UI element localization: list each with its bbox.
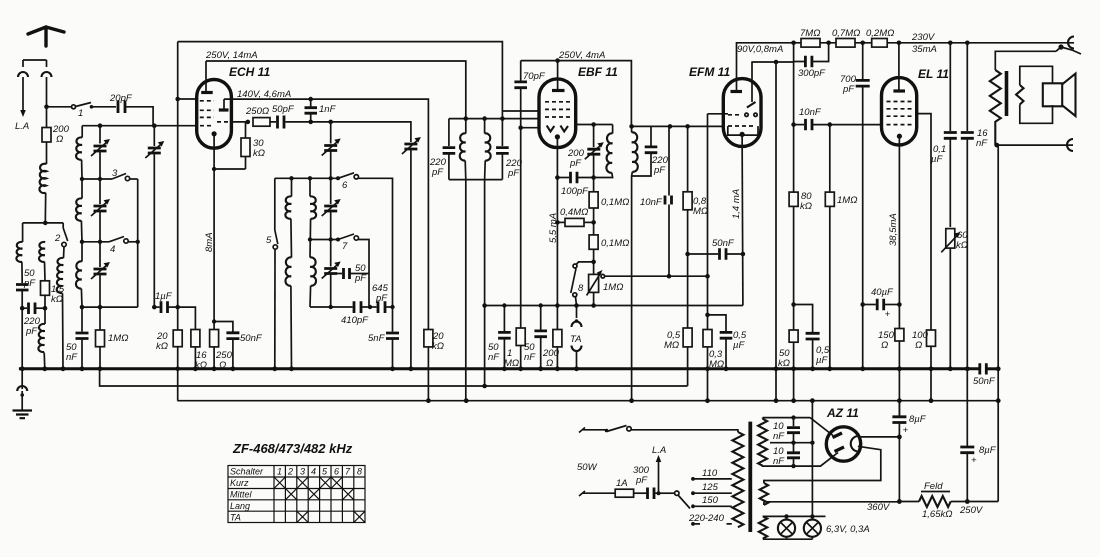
capacitor 50pF osc <box>278 116 285 129</box>
capacitor 50nF cathode <box>214 322 233 332</box>
wire field to 250V node <box>951 501 999 503</box>
core output transformer <box>1005 71 1009 116</box>
resistor 20kohm osc <box>424 330 433 347</box>
wire tap to S7 <box>310 239 338 241</box>
svg-text:50nF: 50nF <box>712 238 735 249</box>
svg-text:4: 4 <box>311 467 316 477</box>
resistor 1Mohm out <box>829 125 831 193</box>
bus nodes mid <box>272 366 277 371</box>
capacitor 50nF <box>503 306 505 332</box>
wire EFM right drop <box>775 62 777 401</box>
resistor 7Mohm <box>801 39 820 48</box>
resistor 0.7Mohm <box>836 39 855 48</box>
svg-text:TA: TA <box>570 334 581 345</box>
svg-text:250Ω: 250Ω <box>245 106 269 117</box>
wire mains stub top <box>579 428 607 433</box>
coil IF2 primary <box>612 125 614 134</box>
svg-text:kΩ: kΩ <box>156 341 168 352</box>
svg-text:ZF-468/473/482 kHz: ZF-468/473/482 kHz <box>232 441 353 456</box>
switch S3 <box>82 178 112 180</box>
svg-text:125: 125 <box>702 482 719 493</box>
wire RF coil column top <box>81 126 83 138</box>
svg-text:+: + <box>885 309 891 320</box>
node osc top <box>329 176 333 180</box>
node HV centre tap <box>791 441 795 445</box>
node coil bottom <box>80 305 85 310</box>
svg-text:nF: nF <box>488 352 500 363</box>
coil RF C <box>81 242 83 262</box>
resistor 16kohm <box>191 330 200 347</box>
selector contact <box>675 491 679 495</box>
svg-text:0,1MΩ: 0,1MΩ <box>601 197 629 208</box>
svg-text:pF: pF <box>507 168 520 179</box>
wire EFM grid line <box>708 114 724 315</box>
node 1M top <box>98 305 103 310</box>
svg-text:1A: 1A <box>616 478 628 489</box>
wire 16k column <box>178 307 196 329</box>
svg-text:1: 1 <box>277 467 282 477</box>
speaker cone <box>1062 74 1075 116</box>
capacitor 10nF a <box>793 418 795 427</box>
svg-text:5,5 mA: 5,5 mA <box>548 213 559 243</box>
svg-text:pF: pF <box>375 293 388 304</box>
wire long line 305 <box>485 305 743 307</box>
wire 20pF to RF line corner <box>125 107 153 126</box>
node TA top <box>574 303 579 308</box>
jack speaker return <box>1067 139 1073 151</box>
EL11 cathode <box>897 134 902 139</box>
node screen stub <box>175 97 180 102</box>
coil osc left upper <box>291 178 293 196</box>
capacitor 220pF IF1-right <box>501 119 503 146</box>
svg-text:410pF: 410pF <box>341 315 369 326</box>
resistor 1Mohm <box>99 307 101 330</box>
node 1uF right <box>175 305 180 310</box>
ECH11 grid dashes <box>200 101 214 126</box>
svg-text:110: 110 <box>702 468 718 479</box>
wire 90V branch <box>751 61 793 63</box>
wire AZ11 output <box>861 436 900 438</box>
potentiometer 1Mohm <box>589 274 599 292</box>
bus nodes left <box>20 366 25 371</box>
op tube EBF11 U2 <box>539 79 576 148</box>
wire EBF11 anode stem <box>557 61 559 90</box>
node bracket junction <box>43 221 48 226</box>
capacitor 1nF <box>310 99 312 106</box>
capacitor 220pF IF2 <box>650 126 652 146</box>
svg-text:nF: nF <box>66 352 78 363</box>
rail 250V 4mA <box>521 61 632 127</box>
op tube ECH11 U1 <box>197 80 232 149</box>
node sw3 junction <box>98 177 102 181</box>
svg-text:Schalter: Schalter <box>230 467 264 477</box>
svg-text:50nF: 50nF <box>973 376 996 387</box>
svg-text:90V,0,8mA: 90V,0,8mA <box>737 44 783 55</box>
wire EL11 anode stem <box>898 43 900 90</box>
trimmer osc pad2 <box>329 237 333 241</box>
svg-text:Lang: Lang <box>230 501 250 511</box>
table switch matrix <box>228 466 365 523</box>
node 1nF top <box>308 97 313 102</box>
svg-text:38,5mA: 38,5mA <box>888 213 899 246</box>
svg-text:1MΩ: 1MΩ <box>108 333 128 344</box>
wire mains stub bottom <box>579 491 615 496</box>
X marks Mittel <box>285 489 296 500</box>
svg-text:150: 150 <box>702 495 719 506</box>
svg-text:pF: pF <box>23 278 36 289</box>
ECH11 triode plate <box>219 108 229 111</box>
wire RF grid line <box>82 125 197 127</box>
EFM11 screen box <box>728 126 758 135</box>
speaker secondary zigzag <box>1016 85 1023 105</box>
trimmer osc main <box>404 144 417 149</box>
EBF11 anode plate <box>552 89 565 92</box>
capacitor 300pF <box>794 43 804 62</box>
tap 150 <box>691 504 695 508</box>
svg-text:2: 2 <box>54 233 61 244</box>
rail 250V 14mA <box>206 61 466 119</box>
node osc tap <box>308 237 312 241</box>
svg-text:Ω: Ω <box>56 134 63 145</box>
svg-text:nF: nF <box>976 138 988 149</box>
wire band bracket <box>82 179 138 307</box>
coil RF A <box>76 137 82 159</box>
wire antenna stems to plugs <box>23 60 47 107</box>
trimmer 200pF <box>593 125 595 148</box>
svg-text:Ω: Ω <box>219 360 226 371</box>
switch S6 <box>336 176 340 180</box>
svg-text:Ω: Ω <box>881 340 888 351</box>
svg-text:2: 2 <box>287 467 293 477</box>
node cathode jog <box>212 167 216 171</box>
svg-text:8mA: 8mA <box>204 232 215 252</box>
capacitor 50nF det <box>688 253 718 255</box>
node L.A tap <box>657 491 661 495</box>
capacitor 100pF <box>557 177 569 179</box>
resistor 1Mohm grid <box>520 128 522 328</box>
resistor 0.4Mohm <box>557 221 565 223</box>
coil IF1 secondary <box>484 119 486 134</box>
wire lamps bottom line <box>763 537 812 539</box>
coil IF1 primary <box>465 119 467 134</box>
coil wave-trap middle <box>39 242 45 262</box>
ground symbol <box>21 391 23 410</box>
svg-text:4: 4 <box>110 244 115 255</box>
svg-text:40µF: 40µF <box>871 287 894 298</box>
svg-text:3: 3 <box>112 168 118 179</box>
svg-text:1µF: 1µF <box>155 291 173 302</box>
wire ECH11 anode stem <box>205 61 207 92</box>
lamp 1 <box>778 520 795 537</box>
plug hook right <box>42 72 52 77</box>
capacitor 10nF b <box>787 453 800 458</box>
bus nodes detector <box>502 366 507 371</box>
wire trimmer column <box>99 126 101 144</box>
winding primary <box>732 432 743 527</box>
resistor 0.3Mohm <box>707 315 709 330</box>
resistor 200ohm cathode <box>553 330 562 347</box>
capacitor 8uF b electrolytic <box>966 369 968 446</box>
plug hook left <box>18 72 28 77</box>
svg-text:6,3V, 0,3A: 6,3V, 0,3A <box>826 524 870 535</box>
wire speaker bottom line <box>997 144 1073 146</box>
svg-text:TA: TA <box>230 512 241 522</box>
jack TA upper <box>576 306 578 319</box>
node sw4 junction <box>98 240 102 244</box>
resistor 20kohm <box>177 307 179 330</box>
svg-text:nF: nF <box>524 352 536 363</box>
svg-text:pF: pF <box>635 475 648 486</box>
EL11 grid dashes <box>887 102 912 125</box>
EFM11 anode plate <box>731 90 743 93</box>
svg-text:250V, 4mA: 250V, 4mA <box>558 50 605 61</box>
node 0.5uF b jog <box>791 302 796 307</box>
svg-text:EBF 11: EBF 11 <box>578 65 618 79</box>
wire antenna line to switch 1 <box>47 106 72 108</box>
node 0.3M top <box>705 313 710 318</box>
svg-text:35mA: 35mA <box>912 44 937 55</box>
coil speaker primary <box>990 70 1001 145</box>
svg-text:7MΩ: 7MΩ <box>800 28 820 39</box>
wire 793 column <box>793 62 795 125</box>
svg-text:µF: µF <box>733 340 745 351</box>
wire 30k bottom jog <box>214 157 245 170</box>
wire fuse to cap <box>634 492 648 494</box>
third line nodes <box>426 398 431 403</box>
svg-text:50nF: 50nF <box>240 333 263 344</box>
resistor 100ohm <box>927 330 936 346</box>
wire IF2 top line <box>632 125 724 127</box>
wire right chassis vertical <box>997 145 999 501</box>
node long305 start <box>482 303 487 308</box>
field coil line <box>899 501 919 503</box>
capacitor 70pF <box>520 61 522 81</box>
svg-text:360V: 360V <box>867 502 891 513</box>
node 70pF bottom <box>518 125 523 130</box>
wire EL11 g2 line <box>917 114 931 330</box>
node 1uF left <box>152 305 157 310</box>
svg-text:6: 6 <box>334 467 339 477</box>
resistor 1.5kohm <box>44 262 47 281</box>
EL11 anode plate <box>893 89 905 92</box>
capacitor 300pF mains <box>648 488 655 500</box>
wire osc top line <box>275 177 338 179</box>
wire left column to bus <box>21 308 23 369</box>
capacitor 10nF det <box>665 196 672 205</box>
switch mains <box>607 426 627 432</box>
node L.A arrow <box>22 104 24 112</box>
svg-text:230V: 230V <box>911 32 936 43</box>
svg-text:10nF: 10nF <box>799 107 822 118</box>
wire B+ left vertical <box>177 42 179 308</box>
svg-text:1MΩ: 1MΩ <box>603 282 623 293</box>
svg-text:pF: pF <box>25 326 38 337</box>
capacitor 0.5uF a <box>720 332 733 338</box>
svg-text:8µF: 8µF <box>909 414 927 425</box>
capacitor 410pF <box>354 301 361 313</box>
EBF11 grid dashes <box>545 102 570 117</box>
svg-text:MΩ: MΩ <box>709 359 724 370</box>
coil osc right lower <box>310 257 316 285</box>
wire wave-trap bracket <box>23 223 64 242</box>
resistor 80kohm <box>793 125 795 193</box>
wire EBF cathode down <box>556 137 558 369</box>
svg-text:20pF: 20pF <box>109 93 133 104</box>
switch S7 <box>336 238 340 242</box>
IF1 top line <box>449 118 539 120</box>
svg-text:MΩ: MΩ <box>504 358 519 369</box>
wire filament loop <box>764 446 881 483</box>
svg-text:MΩ: MΩ <box>693 206 708 217</box>
svg-text:+: + <box>971 455 977 466</box>
resistor 0.8Mohm <box>687 126 689 191</box>
capacitor 10nF coupling <box>794 124 804 126</box>
node 40uF left <box>860 302 865 307</box>
wire 140V line <box>224 99 428 329</box>
resistor 250ohm cath <box>210 330 219 347</box>
svg-text:8µF: 8µF <box>979 445 997 456</box>
wire speaker top line <box>995 51 1056 70</box>
resistor 250ohm <box>253 118 270 127</box>
wire ECH11 cathode down <box>213 134 215 369</box>
coil wave-trap La <box>16 242 22 262</box>
svg-text:nF: nF <box>773 431 785 442</box>
svg-text:pF: pF <box>653 165 666 176</box>
X marks Kurz <box>274 477 285 489</box>
svg-text:5nF: 5nF <box>368 333 386 344</box>
svg-text:1nF: 1nF <box>319 104 337 115</box>
fuse 1A <box>615 489 633 497</box>
resistor 0.1Mohm b <box>589 235 598 249</box>
second line (AVC) <box>100 369 688 386</box>
AZ11 filament notch <box>851 436 859 452</box>
lamp 2 <box>804 520 821 537</box>
switch S4 <box>82 241 109 243</box>
capacitor 220pF IF1-left <box>448 119 450 146</box>
wire EFM11 anode stem + rail corner <box>737 43 1075 91</box>
svg-text:0,1MΩ: 0,1MΩ <box>601 238 629 249</box>
svg-text:kΩ: kΩ <box>253 148 265 159</box>
svg-text:50pF: 50pF <box>272 104 295 115</box>
svg-text:250V, 14mA: 250V, 14mA <box>205 50 258 61</box>
trimmer osc pad1 <box>330 122 332 144</box>
switch S8 <box>577 262 594 264</box>
svg-text:0,7MΩ: 0,7MΩ <box>832 28 860 39</box>
node 0.8M bottom <box>685 252 690 257</box>
coil below 220pF <box>44 308 46 324</box>
coil switch-2 branch <box>63 247 66 258</box>
svg-text:5: 5 <box>266 235 272 246</box>
wire switch to 20pF <box>92 106 117 108</box>
tap 220-240 <box>691 522 695 526</box>
resistor 0.5Mohm <box>687 254 689 328</box>
wire ground column AZ <box>811 401 813 517</box>
ECH11 cathode <box>212 131 217 136</box>
trimmer C1 <box>94 146 107 151</box>
svg-text:1MΩ: 1MΩ <box>837 195 857 206</box>
svg-text:kΩ: kΩ <box>51 294 63 305</box>
node antenna junction <box>44 105 49 110</box>
svg-text:Feld: Feld <box>924 481 943 492</box>
node 100pF junction <box>555 175 560 180</box>
resistor 0.2Mohm <box>872 39 888 48</box>
wire bus tail <box>986 367 998 370</box>
capacitor 50nF bus series <box>980 363 987 374</box>
core mains transformer <box>748 422 752 532</box>
trimmer osc pad3 <box>324 269 337 274</box>
svg-text:+: + <box>903 425 909 436</box>
antenna <box>28 27 64 46</box>
svg-text:0,2MΩ: 0,2MΩ <box>866 28 894 39</box>
capacitor 50pF pad <box>333 273 342 275</box>
svg-text:50W: 50W <box>577 462 598 473</box>
winding HV secondary <box>762 418 764 419</box>
wire ground drop <box>21 369 23 389</box>
wire grid line 111 <box>502 110 539 112</box>
capacitor 0.5uF b electrolytic <box>794 305 813 333</box>
EBF11 cathode <box>555 134 560 139</box>
node EFM cathode 50nF <box>741 252 746 257</box>
AZ11 plate 1 <box>833 433 843 438</box>
capacitor 50nF left <box>81 307 83 331</box>
svg-text:kΩ: kΩ <box>778 358 790 369</box>
svg-text:140V, 4,6mA: 140V, 4,6mA <box>237 89 291 100</box>
wire IF1 prim avc <box>484 180 486 386</box>
svg-text:7: 7 <box>342 241 348 252</box>
winding heater lamps <box>762 515 764 518</box>
capacitor 8uF a electrolytic <box>898 401 900 416</box>
resistor 150ohm <box>895 329 904 342</box>
wire IF1 bottom <box>449 179 503 181</box>
switch S2 <box>63 228 67 241</box>
svg-text:6: 6 <box>342 180 348 191</box>
node 220pF left <box>20 306 25 311</box>
svg-text:70pF: 70pF <box>523 71 546 82</box>
resistor 0.1Mohm a <box>593 178 595 192</box>
capacitor 0.1uF <box>949 43 951 131</box>
svg-text:pF: pF <box>354 273 367 284</box>
svg-text:kΩ: kΩ <box>956 240 968 251</box>
svg-text:AZ 11: AZ 11 <box>826 406 859 420</box>
svg-text:MΩ: MΩ <box>664 340 679 351</box>
switch S5 <box>274 178 276 230</box>
capacitor 40uF electrolytic <box>863 304 876 306</box>
speaker magnet <box>1043 83 1062 106</box>
ECH11 anode plate <box>201 91 213 94</box>
capacitor 50nF b <box>540 306 542 330</box>
svg-text:Kurz: Kurz <box>230 478 249 488</box>
jack output mid plug <box>1058 44 1063 49</box>
plug chassis hook <box>17 386 27 391</box>
svg-text:pF: pF <box>569 158 582 169</box>
capacitor 20pF <box>118 101 125 114</box>
tap 125 <box>691 491 695 495</box>
wire diode line <box>576 124 613 126</box>
wire EL11 cathode down <box>898 136 900 328</box>
wire EFM cathode down <box>741 134 744 305</box>
svg-text:EFM 11: EFM 11 <box>689 65 730 79</box>
coil antenna L1 <box>46 142 48 164</box>
svg-text:EL 11: EL 11 <box>918 67 949 81</box>
trimmer C2 <box>99 179 101 204</box>
svg-text:3: 3 <box>300 467 305 477</box>
tap 110 <box>691 477 695 481</box>
svg-text:100pF: 100pF <box>561 186 589 197</box>
AZ11 plate 2 <box>835 447 845 452</box>
wire triode anode stem <box>223 99 225 110</box>
resistor 30kohm <box>245 122 247 138</box>
wire 0.5uF jog <box>708 315 727 331</box>
